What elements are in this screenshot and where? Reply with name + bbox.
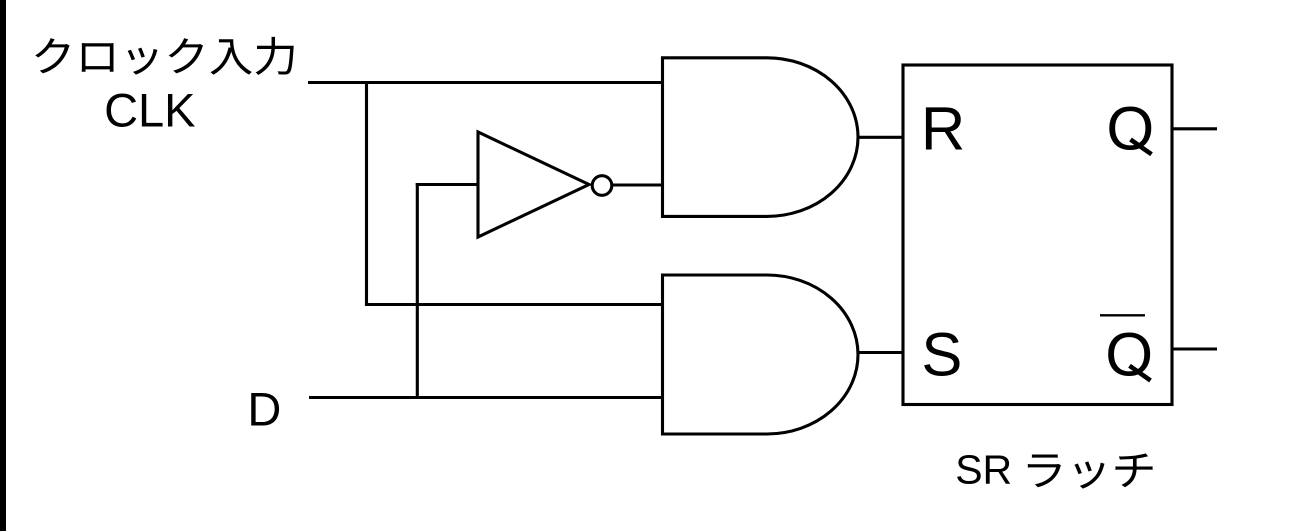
AND gate U2 (top): [663, 58, 859, 217]
wire Q output: [1172, 127, 1217, 130]
left edge black bar: [0, 0, 6, 531]
wire D branch vertical to inverter input: [416, 183, 419, 398]
wire D input horizontal: [309, 396, 663, 399]
svg-text:CLK: CLK: [104, 84, 195, 137]
svg-text:S: S: [921, 321, 962, 390]
inverter U1 bubble: [592, 176, 612, 196]
AND gate U3 (bottom): [663, 275, 859, 434]
wire Q-bar output: [1172, 347, 1217, 350]
wire U2 output to R input: [858, 136, 903, 139]
label クロック入力 (clock input): [35, 37, 293, 75]
svg-text:R: R: [921, 94, 965, 163]
SR latch U4 box: [903, 65, 1172, 405]
wire CLK branch vertical: [365, 81, 368, 305]
svg-text:SR: SR: [955, 447, 1012, 493]
wire U3 output to S input: [858, 351, 903, 354]
svg-text:D: D: [247, 383, 281, 436]
wire inverter input horizontal: [416, 183, 478, 186]
label ラッチ part of SRラッチ: [1028, 453, 1153, 488]
wire CLK input horizontal: [308, 81, 663, 84]
inverter U1 triangle: [478, 132, 589, 237]
wire CLK branch to lower AND gate: [365, 303, 663, 306]
Q-bar overline: [1100, 314, 1145, 316]
wire inverter output to top AND gate: [612, 183, 663, 186]
